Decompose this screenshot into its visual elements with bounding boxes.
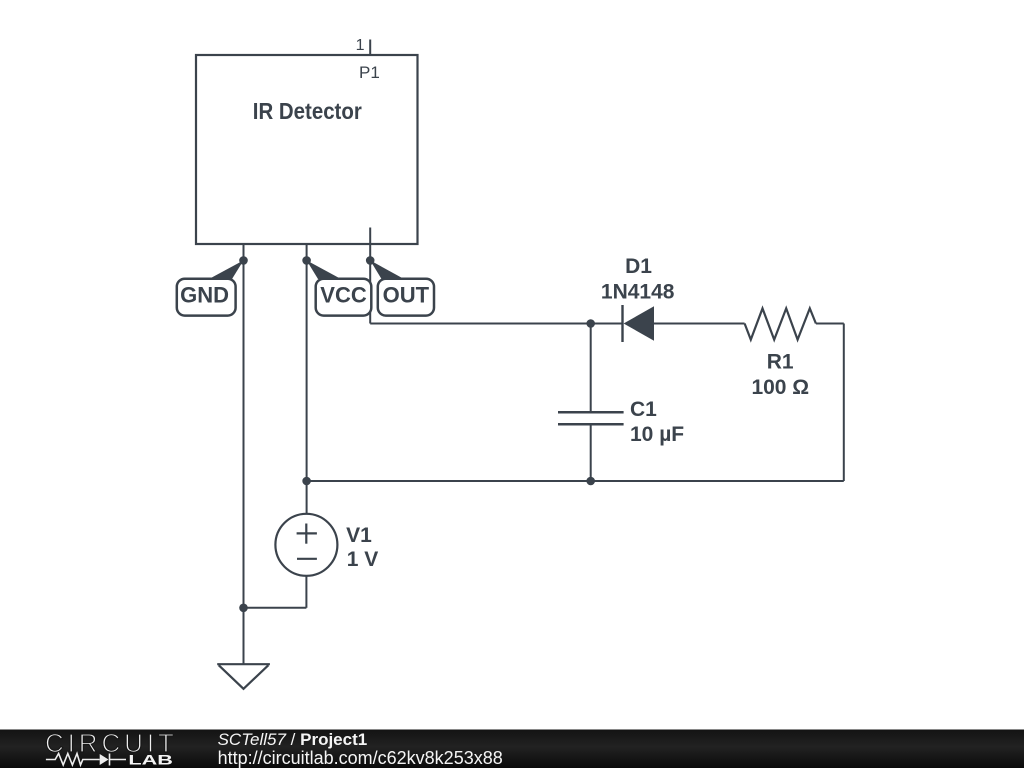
svg-text:10 µF: 10 µF [630,423,684,446]
svg-text:1: 1 [356,37,365,54]
svg-text:P1: P1 [359,63,380,82]
junction node VCC-bottom wire [302,477,311,486]
flag GND [177,260,244,315]
wire right vertical segment [843,324,845,482]
svg-text:OUT: OUT [383,283,430,308]
resistor R1 [745,308,816,339]
svg-text:LAB: LAB [128,752,173,768]
svg-text:GND: GND [180,283,229,308]
svg-text:VCC: VCC [320,283,367,308]
wire OUT net horizontal to diode [370,323,622,325]
svg-text:1 V: 1 V [347,548,379,571]
wire from diode anode to resistor [654,323,745,325]
IC box P1 [196,55,418,244]
wire V1 to GND net horizontal [244,607,307,609]
svg-text:V1: V1 [346,524,372,547]
CircuitLab logo squiggle (resistor + diode) [46,754,126,766]
flag VCC [307,260,372,315]
svg-text:R1: R1 [767,351,794,374]
svg-text:D1: D1 [625,255,652,278]
svg-text:1N4148: 1N4148 [601,280,675,303]
wire bottom horizontal segment [307,480,844,482]
svg-text:SCTell57 / Project1: SCTell57 / Project1 [218,730,368,749]
wire GND net vertical from P1 pin to ground [243,244,245,664]
wire V1 bottom lead [305,575,307,608]
junction dot GND pin [239,256,248,265]
pin 1 stub of P1 [369,40,371,56]
svg-text:IR Detector: IR Detector [253,98,362,124]
wire from resistor to top-right corner [816,323,844,325]
wire capacitor top lead [590,324,592,413]
OUT pin stub inside box and wire down [369,228,371,324]
svg-text:100 Ω: 100 Ω [751,376,809,399]
wire capacitor bottom lead [590,424,592,481]
diode D1 [623,305,655,342]
junction node V1-GND wire [239,604,248,613]
junction node diode-capacitor [586,319,595,328]
junction dot VCC pin [302,256,311,265]
capacitor C1 [558,412,624,424]
wire VCC net vertical from P1 pin to V1 top [306,244,308,515]
voltage source V1 [275,514,337,576]
junction node capacitor-bottom wire [586,477,595,486]
junction dot OUT pin [366,256,375,265]
flag OUT [370,260,434,315]
ground symbol [217,664,270,689]
svg-text:http://circuitlab.com/c62kv8k2: http://circuitlab.com/c62kv8k253x88 [218,748,503,768]
svg-text:C1: C1 [630,398,657,421]
footer bar [0,730,1024,768]
